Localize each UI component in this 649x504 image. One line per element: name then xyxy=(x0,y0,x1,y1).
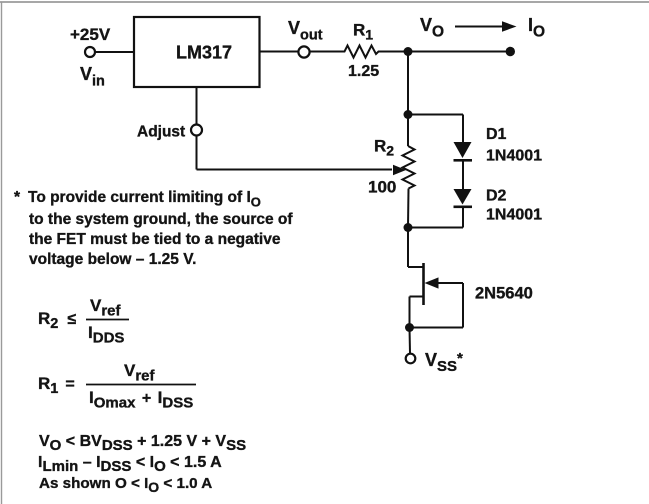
svg-text:the FET must be tied to a nega: the FET must be tied to a negative xyxy=(29,231,281,248)
wire R2 top lead xyxy=(407,115,409,147)
diode D2 cathode bar xyxy=(454,206,473,209)
junction node R2 bottom xyxy=(404,223,413,232)
junction node FET source xyxy=(405,323,414,332)
arrowhead of FET gate (points at channel) xyxy=(425,277,439,288)
page top border xyxy=(0,1,649,3)
diode D1 cathode bar xyxy=(454,159,473,162)
wire node VO to output stub xyxy=(408,51,510,53)
svg-text:voltage below – 1.25 V.: voltage below – 1.25 V. xyxy=(29,251,196,268)
wire Vout terminal to R1 xyxy=(310,51,341,53)
svg-text:+25V: +25V xyxy=(70,25,111,44)
wire R1 to node VO xyxy=(382,51,408,53)
arrowhead of adjust wiper arrow xyxy=(393,165,406,175)
svg-text:D2: D2 xyxy=(486,188,507,205)
svg-text:Adjust: Adjust xyxy=(137,124,185,141)
svg-text:1.25: 1.25 xyxy=(348,63,379,80)
wire R2 bottom node down to FET drain xyxy=(407,228,409,268)
wire diode branch bottom to R2 bottom node xyxy=(408,227,463,229)
diode D1 triangle xyxy=(454,142,472,158)
wire source node to VSS terminal xyxy=(409,328,412,354)
line of VO to IO current arrow xyxy=(455,26,505,28)
svg-text:1N4001: 1N4001 xyxy=(486,148,542,165)
svg-text:LM317: LM317 xyxy=(176,43,232,63)
diode D2 triangle xyxy=(454,189,472,205)
svg-text:*: * xyxy=(14,189,21,206)
transistor Q1 channel bar xyxy=(422,263,425,305)
regulator U1 LM317 box xyxy=(134,17,260,87)
potentiometer R2 zigzag xyxy=(403,146,415,189)
wire R2 top node to diode branch xyxy=(408,114,463,116)
wire source lead from channel xyxy=(410,296,424,298)
page left border xyxy=(1,2,3,504)
wire R2 bottom lead xyxy=(407,189,410,228)
svg-text:D1: D1 xyxy=(486,126,507,143)
fraction bar of R1 equation xyxy=(86,384,196,386)
svg-text:2N5640: 2N5640 xyxy=(475,285,533,303)
wire LM317 to Vout terminal xyxy=(260,51,299,53)
wire adjust run to R2 wiper xyxy=(197,169,393,171)
wire source down to source node xyxy=(409,297,411,328)
wire gate loop right side xyxy=(462,283,464,328)
node Adjust terminal xyxy=(191,125,202,136)
svg-text:1N4001: 1N4001 xyxy=(486,207,542,224)
node +25V input terminal xyxy=(85,47,95,57)
arrowhead of VO to IO current arrow xyxy=(502,21,517,31)
node Vout terminal xyxy=(298,46,309,57)
fraction bar of R2 equation xyxy=(86,319,129,321)
wire drain lead into channel xyxy=(408,266,424,268)
equation R2 <= Vref / IDDS xyxy=(38,296,124,347)
wire between D1 and D2 xyxy=(462,161,464,190)
svg-text:to the system ground, the sour: to the system ground, the source of xyxy=(29,211,293,228)
wire diode branch upper segment xyxy=(462,115,464,143)
wire adjust terminal down xyxy=(196,136,198,170)
node VSS terminal xyxy=(406,354,416,364)
wire input to LM317 xyxy=(96,51,135,53)
wire D2 to bottom of branch xyxy=(462,206,464,228)
junction node R2 top xyxy=(404,110,413,119)
wire adjust pin from LM317 xyxy=(196,87,198,125)
equation R1 = Vref / (IOmax + IDSS) xyxy=(38,361,193,412)
junction node at VO xyxy=(404,47,413,56)
resistor R1 zigzag xyxy=(341,46,382,58)
svg-text:100: 100 xyxy=(368,178,396,197)
wire gate lead xyxy=(428,282,463,284)
footnote text block xyxy=(14,189,293,268)
node output endpoint xyxy=(506,47,515,56)
wire node VO down to R2 top node xyxy=(407,52,409,115)
wire gate loop bottom to source node xyxy=(410,327,464,329)
